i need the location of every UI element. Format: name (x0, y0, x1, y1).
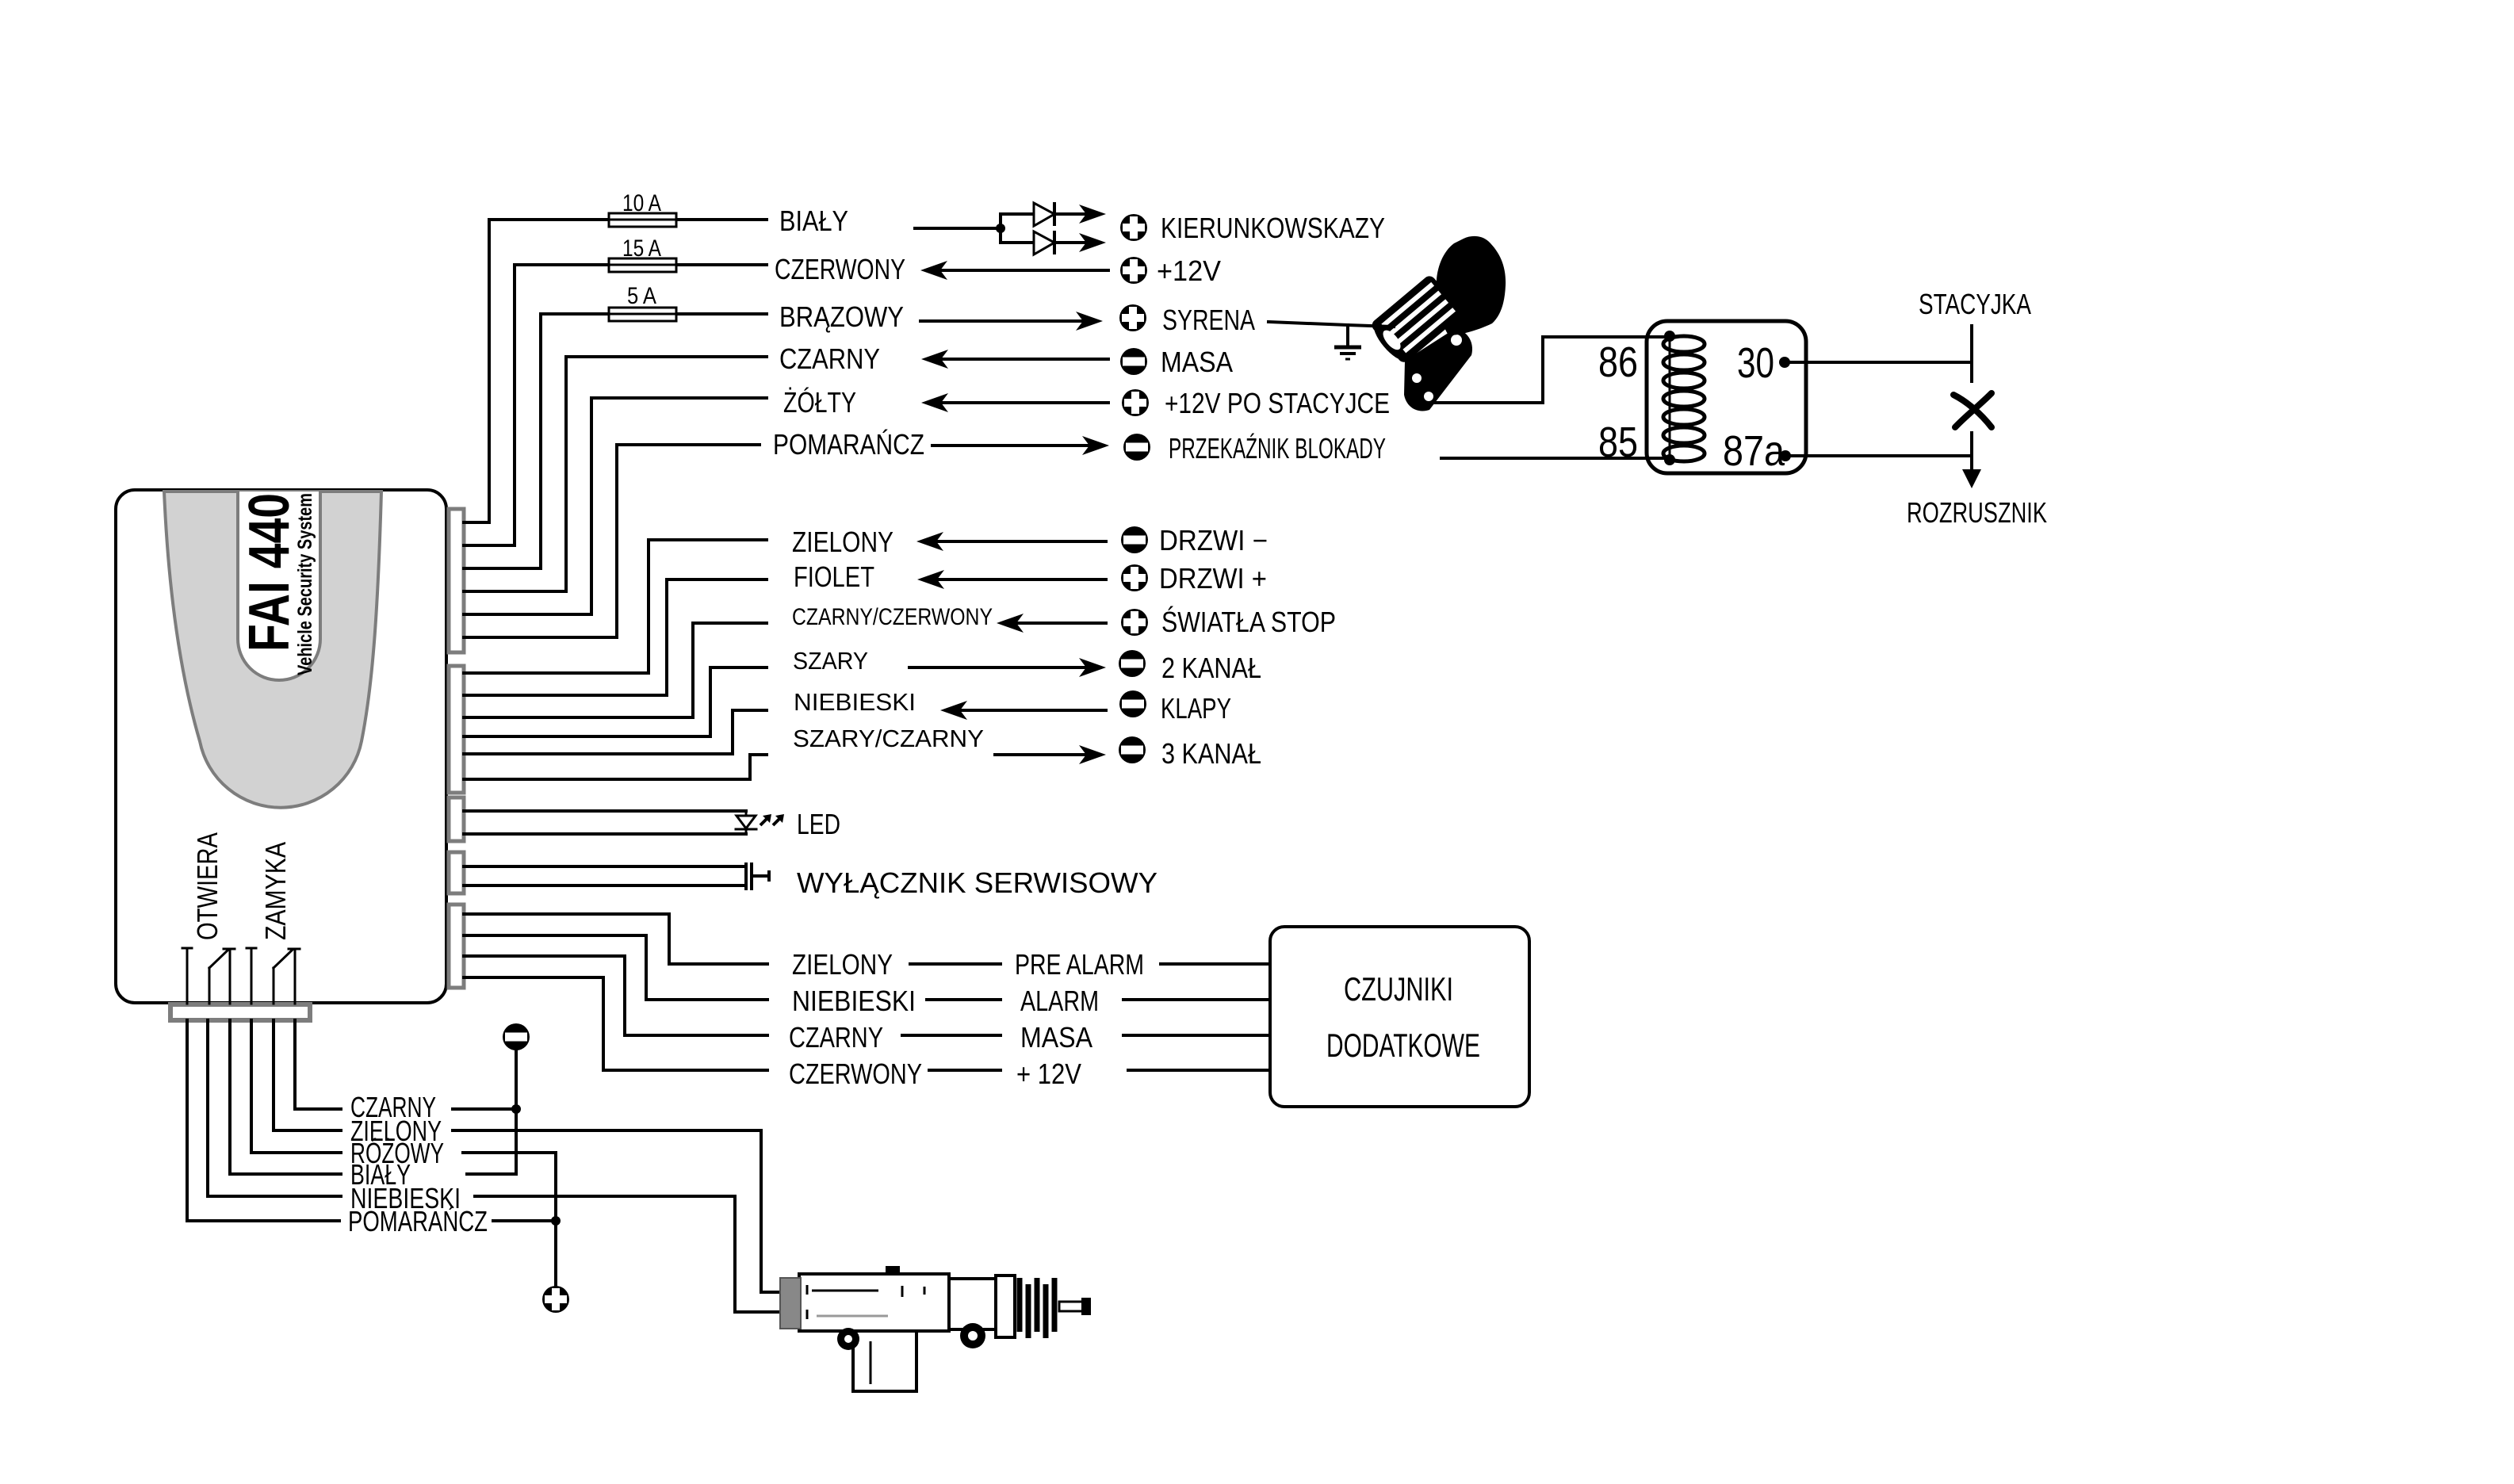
svg-text:SZARY/CZARNY: SZARY/CZARNY (793, 725, 984, 752)
svg-text:ZIELONY: ZIELONY (792, 948, 893, 981)
svg-text:CZARNY: CZARNY (779, 342, 880, 375)
svg-text:+12V: +12V (1157, 254, 1221, 287)
svg-text:POMARAŃCZ: POMARAŃCZ (348, 1205, 488, 1237)
svg-text:MASA: MASA (1020, 1021, 1092, 1054)
svg-text:CZARNY: CZARNY (789, 1021, 883, 1054)
svg-text:POMARAŃCZ: POMARAŃCZ (773, 428, 924, 461)
svg-text:10 A: 10 A (622, 190, 661, 216)
svg-text:30: 30 (1737, 339, 1774, 387)
svg-text:NIEBIESKI: NIEBIESKI (794, 688, 916, 716)
svg-text:STACYJKA: STACYJKA (1919, 288, 2031, 320)
svg-text:87a: 87a (1723, 427, 1785, 475)
svg-text:15 A: 15 A (622, 235, 661, 262)
svg-text:NIEBIESKI: NIEBIESKI (792, 985, 916, 1017)
svg-text:WYŁĄCZNIK SERWISOWY: WYŁĄCZNIK SERWISOWY (797, 866, 1158, 899)
svg-text:+ 12V: + 12V (1016, 1058, 1081, 1090)
svg-text:ŻÓŁTY: ŻÓŁTY (783, 386, 856, 419)
svg-text:Vehicle Security System: Vehicle Security System (294, 493, 316, 675)
svg-text:KLAPY: KLAPY (1161, 692, 1231, 725)
svg-text:DRZWI −: DRZWI − (1159, 524, 1268, 556)
svg-text:SZARY: SZARY (793, 647, 868, 675)
svg-text:FIOLET: FIOLET (794, 560, 874, 593)
svg-text:CZERWONY: CZERWONY (789, 1058, 922, 1090)
svg-text:CZERWONY: CZERWONY (775, 253, 905, 285)
svg-text:CZUJNIKI: CZUJNIKI (1344, 970, 1453, 1008)
svg-text:PRE ALARM: PRE ALARM (1015, 948, 1144, 981)
svg-text:BRĄZOWY: BRĄZOWY (779, 300, 904, 333)
svg-text:ALARM: ALARM (1020, 985, 1099, 1017)
svg-text:ZAMYKA: ZAMYKA (259, 842, 292, 940)
svg-text:BIAŁY: BIAŁY (779, 205, 848, 237)
svg-text:CZARNY/CZERWONY: CZARNY/CZERWONY (792, 604, 993, 630)
svg-text:2 KANAŁ: 2 KANAŁ (1161, 652, 1261, 684)
svg-text:ZIELONY: ZIELONY (792, 526, 893, 558)
svg-text:86: 86 (1598, 338, 1638, 386)
svg-text:+12V PO STACYJCE: +12V PO STACYJCE (1165, 387, 1390, 419)
svg-text:FAI 440: FAI 440 (238, 493, 301, 652)
svg-text:ŚWIATŁA STOP: ŚWIATŁA STOP (1161, 605, 1336, 638)
svg-text:DRZWI +: DRZWI + (1159, 562, 1267, 595)
svg-text:PRZEKAŹNIK BLOKADY: PRZEKAŹNIK BLOKADY (1169, 432, 1386, 465)
svg-text:OTWIERA: OTWIERA (191, 832, 224, 940)
svg-text:3 KANAŁ: 3 KANAŁ (1161, 737, 1261, 770)
svg-text:MASA: MASA (1161, 346, 1233, 378)
svg-text:DODATKOWE: DODATKOWE (1326, 1027, 1480, 1064)
svg-text:LED: LED (797, 808, 840, 840)
svg-text:5 A: 5 A (627, 283, 656, 309)
svg-text:SYRENA: SYRENA (1162, 304, 1255, 336)
svg-text:ROZRUSZNIK: ROZRUSZNIK (1907, 496, 2047, 529)
svg-text:KIERUNKOWSKAZY: KIERUNKOWSKAZY (1161, 212, 1385, 244)
